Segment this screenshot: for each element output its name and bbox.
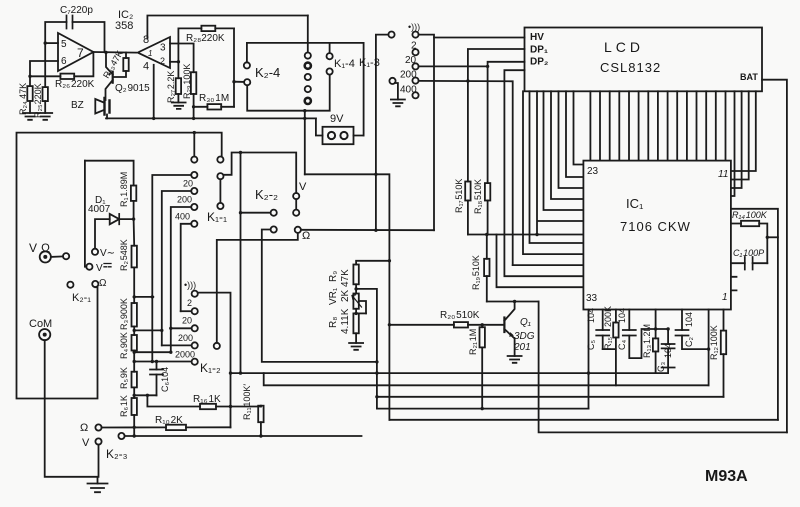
svg-text:R₁₄ 100K: R₁₄ 100K xyxy=(732,210,768,220)
svg-text:Ω: Ω xyxy=(302,230,310,242)
resistor R5 9K xyxy=(119,351,137,396)
node V= contact xyxy=(86,263,111,274)
svg-text:K₂-4: K₂-4 xyxy=(255,65,280,80)
svg-text:BZ: BZ xyxy=(71,100,84,111)
wire K2-4 upper contact to battery+ line xyxy=(247,43,364,136)
resistor R16 1K xyxy=(147,394,261,409)
wire R9 junction to bus riser xyxy=(354,287,378,408)
svg-text:R₄ 90K: R₄ 90K xyxy=(119,332,129,359)
svg-text:200: 200 xyxy=(178,333,193,343)
capacitor C6 104 xyxy=(150,362,170,396)
resistor R1 1.89M xyxy=(85,161,136,219)
svg-text:R₂₇ 2.2K: R₂₇ 2.2K xyxy=(166,71,176,103)
wire R9 top xyxy=(356,259,391,264)
svg-text:R₂ 548K: R₂ 548K xyxy=(119,239,129,271)
wire K1-1 common to V line xyxy=(224,153,297,194)
diode D1 4007 xyxy=(88,195,135,249)
wire BAT xyxy=(762,80,787,433)
svg-text:C₆104: C₆104 xyxy=(160,367,170,392)
resistor R29 100K xyxy=(182,64,196,109)
svg-text:Q₁: Q₁ xyxy=(520,317,531,328)
wire bus y408 xyxy=(377,407,589,410)
wire bus y385 xyxy=(264,373,709,385)
svg-text:R₂₄ 47K: R₂₄ 47K xyxy=(18,83,28,115)
svg-text:VR₁: VR₁ xyxy=(328,287,339,305)
svg-text:Q₂ 9015: Q₂ 9015 xyxy=(115,83,150,94)
wire K2-2 mid contact xyxy=(239,211,271,214)
potentiometer VR1 2K xyxy=(328,287,366,313)
resistor R23 47K xyxy=(101,49,129,80)
svg-text:K₁-₂: K₁-₂ xyxy=(200,361,221,375)
svg-text:•))): •))) xyxy=(408,22,420,32)
wire R19 node to Q1 collector xyxy=(487,300,539,303)
switch K1-3 left contacts xyxy=(359,31,398,231)
wire tap R3/R4 xyxy=(134,329,163,332)
power rail wire xyxy=(106,117,316,120)
svg-text:7: 7 xyxy=(77,46,84,60)
jack COM xyxy=(29,318,52,340)
switch K1-3 range contacts xyxy=(400,22,420,98)
wire to K2-4 left lower contact xyxy=(234,81,244,83)
svg-text:R₃ 900K: R₃ 900K xyxy=(119,298,129,330)
wire K1-1 20 tap xyxy=(152,175,191,362)
capacitor C5 104 xyxy=(586,308,609,350)
svg-text:1: 1 xyxy=(722,292,728,303)
svg-text:20: 20 xyxy=(405,55,417,66)
svg-text:R₂₉ 100K: R₂₉ 100K xyxy=(182,64,192,99)
node V~ contact xyxy=(92,248,115,259)
transistor Q2 9015 xyxy=(106,53,151,100)
svg-text:3DG: 3DG xyxy=(514,331,535,342)
ground (R25) xyxy=(38,113,52,120)
svg-text:R₅ 9K: R₅ 9K xyxy=(119,367,129,389)
svg-text:R₂₈220K: R₂₈220K xyxy=(186,33,225,44)
svg-text:•))): •))) xyxy=(184,280,196,290)
wire K1-1 400 tap xyxy=(171,207,191,352)
resistor R6 1K xyxy=(119,394,137,438)
svg-text:R₂₀ 510K: R₂₀ 510K xyxy=(440,310,480,321)
wire K1-3 "200" line xyxy=(419,79,513,265)
svg-text:R₁₅: R₁₅ xyxy=(603,336,613,350)
wire pin3 xyxy=(170,44,194,73)
svg-text:HV: HV xyxy=(530,32,544,43)
wire HV xyxy=(434,37,525,39)
capacitor C7 220p xyxy=(60,5,93,29)
wire pin2 xyxy=(170,60,180,63)
svg-text:R₁ 1.89M: R₁ 1.89M xyxy=(119,172,129,207)
wire pin5 input xyxy=(44,41,59,44)
svg-text:R₉: R₉ xyxy=(328,271,339,282)
resistor R12 100K xyxy=(709,310,726,397)
svg-text:R₁₂ 100K: R₁₂ 100K xyxy=(709,325,719,360)
svg-text:K₂-₃: K₂-₃ xyxy=(106,447,128,461)
resistor R18 510K xyxy=(473,179,490,235)
capacitor C1 100P xyxy=(731,248,767,270)
switch K2-4 xyxy=(244,16,311,105)
wire IC1 V+ to right rail xyxy=(731,209,778,420)
resistor R3 900K xyxy=(119,295,137,330)
wire K1-3 "20" to DP2 riser xyxy=(419,65,490,68)
wire tap R2/R3 xyxy=(134,295,154,298)
svg-text:R₁₁ 100K′: R₁₁ 100K′ xyxy=(242,384,252,420)
resistor R30 1M xyxy=(194,93,234,110)
svg-text:7106 CKW: 7106 CKW xyxy=(620,219,691,234)
wire DP2 xyxy=(488,62,525,183)
svg-text:20: 20 xyxy=(182,316,192,326)
label IC2 xyxy=(115,9,133,32)
jack V-ohm xyxy=(29,241,54,263)
svg-text:K₁-4: K₁-4 xyxy=(334,58,355,70)
svg-text:CоM: CоM xyxy=(29,318,52,330)
resistor R17 510K xyxy=(454,179,471,235)
svg-text:2000: 2000 xyxy=(175,350,195,360)
svg-text:200: 200 xyxy=(400,70,417,81)
wire K1-2 2 row xyxy=(181,310,192,312)
wire ohm row xyxy=(301,229,434,231)
op-amp U1a (IC2 pin5/6/7) xyxy=(58,33,93,71)
resistor R15 200K xyxy=(603,306,619,385)
svg-text:R₁₈ 510K: R₁₈ 510K xyxy=(473,179,483,214)
wire DC input xyxy=(85,161,86,267)
switch K2-3 xyxy=(80,422,128,461)
wire K2-2 riser xyxy=(239,151,242,373)
svg-text:K₁-₁: K₁-₁ xyxy=(207,210,227,224)
ground (R24) xyxy=(23,113,37,120)
svg-text:V: V xyxy=(96,263,103,274)
wire LCD pins to IC1 right (nested) xyxy=(731,91,756,196)
label M93A xyxy=(705,468,748,485)
svg-text:R₃₀ 1M: R₃₀ 1M xyxy=(199,93,229,104)
svg-text:2K: 2K xyxy=(340,289,351,302)
wire tap R4/R5 xyxy=(134,351,172,354)
svg-text:R₁₀ 2K: R₁₀ 2K xyxy=(155,415,183,426)
IC1 7106 CKW xyxy=(583,161,731,310)
switch K1-1 xyxy=(175,131,227,227)
node ohm contact xyxy=(92,278,107,289)
wire K1-1 200 tap xyxy=(162,191,191,345)
wire K2-4 node riser xyxy=(305,174,390,419)
resistor R28 220K feedback xyxy=(178,26,234,62)
svg-text:400: 400 xyxy=(400,85,417,96)
svg-text:BAT: BAT xyxy=(740,72,758,82)
svg-text:200K: 200K xyxy=(603,306,613,327)
wire tap 2000 row xyxy=(134,360,191,363)
svg-text:9V: 9V xyxy=(330,113,344,125)
transistor Q1 3DG201 xyxy=(504,302,534,357)
wire analog bus xyxy=(468,233,584,236)
wire tap R5/R6 xyxy=(134,394,156,397)
svg-text:M93A: M93A xyxy=(705,468,748,485)
wire common row xyxy=(125,435,362,437)
ground (COM) xyxy=(88,484,108,493)
resistor R25 220K xyxy=(33,43,48,118)
svg-text:K₂-₂: K₂-₂ xyxy=(255,187,278,202)
battery 9V xyxy=(316,113,364,144)
resistor R14 100K xyxy=(731,210,778,263)
wire feedback node vertical xyxy=(232,28,235,106)
wire bus y432 xyxy=(539,302,787,433)
resistor R24 47K xyxy=(18,76,33,115)
wire LCD pin bus to IC1 left (nested) xyxy=(497,70,584,287)
svg-text:6: 6 xyxy=(61,56,67,67)
svg-text:C₇220p: C₇220p xyxy=(60,5,93,16)
resistor R21 1M xyxy=(468,325,485,409)
resistor R26 220K feedback xyxy=(30,52,95,90)
LCD CSL8132 xyxy=(525,28,763,92)
svg-text:C₁ 100P: C₁ 100P xyxy=(733,248,764,258)
wire DP1 xyxy=(468,49,525,182)
svg-text:11: 11 xyxy=(718,169,728,180)
resistor R2 548K xyxy=(119,219,137,297)
svg-text:C₅: C₅ xyxy=(586,340,596,350)
svg-text:4: 4 xyxy=(143,61,149,73)
svg-text:K₂-₁: K₂-₁ xyxy=(72,292,91,304)
svg-text:104: 104 xyxy=(617,308,627,323)
svg-text:104: 104 xyxy=(586,308,596,323)
capacitor C4 104 xyxy=(617,308,656,358)
wire K1-3 top to HV riser xyxy=(419,35,434,231)
switch K1-2 xyxy=(175,280,221,375)
svg-text:23: 23 xyxy=(587,166,599,177)
wire K1-2 200 row xyxy=(162,344,192,346)
wire LCD pins to IC1 top xyxy=(590,91,725,160)
wire op-amp1 output to node xyxy=(93,51,136,54)
svg-text:200: 200 xyxy=(177,195,192,205)
svg-text:C₄: C₄ xyxy=(617,340,627,350)
resistor R13 1.2M xyxy=(642,310,658,374)
svg-text:V: V xyxy=(82,437,90,449)
svg-text:R₁₆ 1K: R₁₆ 1K xyxy=(193,394,221,405)
svg-text:C₂: C₂ xyxy=(684,337,694,347)
svg-text:3: 3 xyxy=(160,43,166,54)
svg-text:IC₁: IC₁ xyxy=(626,196,644,211)
wire IC1 pin to bus2 xyxy=(708,310,710,386)
svg-text:4007: 4007 xyxy=(88,204,111,215)
svg-text:V∼: V∼ xyxy=(100,248,115,259)
wire bus y373 xyxy=(231,371,656,374)
resistor R4 90K xyxy=(119,329,137,359)
svg-text:R₆ 1K: R₆ 1K xyxy=(119,395,129,417)
svg-text:5: 5 xyxy=(61,39,67,50)
svg-text:DP₂: DP₂ xyxy=(530,57,548,68)
wire pin8 supply xyxy=(147,16,307,39)
svg-text:400: 400 xyxy=(175,212,190,222)
resistor R9 47K xyxy=(328,265,359,294)
wire K1-2 buzzer contact riser xyxy=(198,293,232,428)
wire ohm loop (big box) xyxy=(17,133,222,399)
svg-text:358: 358 xyxy=(115,20,133,32)
svg-text:K₁-3: K₁-3 xyxy=(359,57,380,69)
svg-text:2: 2 xyxy=(187,298,192,308)
switch K2-1 xyxy=(51,253,91,304)
ground (R27) xyxy=(172,103,186,109)
op-amp U1b (IC2 pin1/2/3) mirrored xyxy=(138,34,170,73)
wire K2-2 lower-left to bus xyxy=(262,230,377,362)
ground (K1-3) xyxy=(391,100,405,107)
svg-text:1: 1 xyxy=(148,49,152,58)
wire R29 to rail xyxy=(192,107,195,120)
svg-text:VΩ: VΩ xyxy=(29,241,54,255)
svg-text:104: 104 xyxy=(684,312,694,327)
svg-text:LCD: LCD xyxy=(604,39,644,55)
svg-text:R₈: R₈ xyxy=(328,317,339,328)
svg-text:47K: 47K xyxy=(340,269,351,287)
resistor R19 510K xyxy=(471,235,490,302)
wire K1-2 20 row xyxy=(169,327,192,330)
wire IC1 pin33 down xyxy=(587,310,590,409)
ground (Q1 emitter) xyxy=(508,356,522,363)
svg-text:20: 20 xyxy=(183,179,193,189)
capacitor C3 104 xyxy=(656,327,675,373)
resistor R11 100K xyxy=(242,384,264,438)
wire bus y397 xyxy=(375,395,723,398)
svg-text:C₃: C₃ xyxy=(656,362,666,372)
svg-text:Ω: Ω xyxy=(80,422,88,434)
svg-text:104: 104 xyxy=(663,343,673,358)
IC1 right pin stubs xyxy=(731,277,737,291)
svg-text:R₁₇ 510K: R₁₇ 510K xyxy=(454,179,464,213)
resistor R20 510K base xyxy=(388,310,505,328)
resistor R27 2.2K xyxy=(166,62,181,103)
wire K1-2 common riser xyxy=(217,233,298,343)
svg-text:DP₁: DP₁ xyxy=(530,45,548,56)
switch K2-2 xyxy=(255,181,310,242)
svg-text:R₂₁ 1M: R₂₁ 1M xyxy=(468,329,478,355)
wire C7 top loop xyxy=(45,22,104,52)
svg-text:201: 201 xyxy=(513,342,531,353)
wire K1-1 bottom tap xyxy=(181,224,192,311)
wire COM to ground xyxy=(45,340,99,483)
svg-text:CSL8132: CSL8132 xyxy=(600,60,661,75)
capacitor C2 104 xyxy=(676,310,711,351)
svg-text:Ω: Ω xyxy=(99,278,107,289)
resistor R10 2K xyxy=(102,415,231,430)
wire K2-4 junction down xyxy=(304,111,306,175)
svg-text:33: 33 xyxy=(586,293,598,304)
switch K1-4 xyxy=(327,43,355,75)
svg-text:R₁₉ 510K: R₁₉ 510K xyxy=(471,255,481,290)
resistor R8 4.11K xyxy=(328,308,366,343)
wire pin4 to rail xyxy=(152,65,155,120)
ground (R8) xyxy=(349,343,363,350)
svg-text:V: V xyxy=(299,181,307,193)
svg-text:R₂₆ 220K: R₂₆ 220K xyxy=(55,79,95,90)
buzzer BZ xyxy=(71,98,110,118)
wire bus y420 xyxy=(389,419,778,421)
svg-text:2: 2 xyxy=(160,56,165,66)
svg-text:4.11K: 4.11K xyxy=(340,308,351,334)
svg-text:R₁₃ 1.2M: R₁₃ 1.2M xyxy=(642,324,652,358)
wire K2-4 lower-left to bottom line xyxy=(247,75,330,113)
wire pin6 input xyxy=(28,61,58,78)
